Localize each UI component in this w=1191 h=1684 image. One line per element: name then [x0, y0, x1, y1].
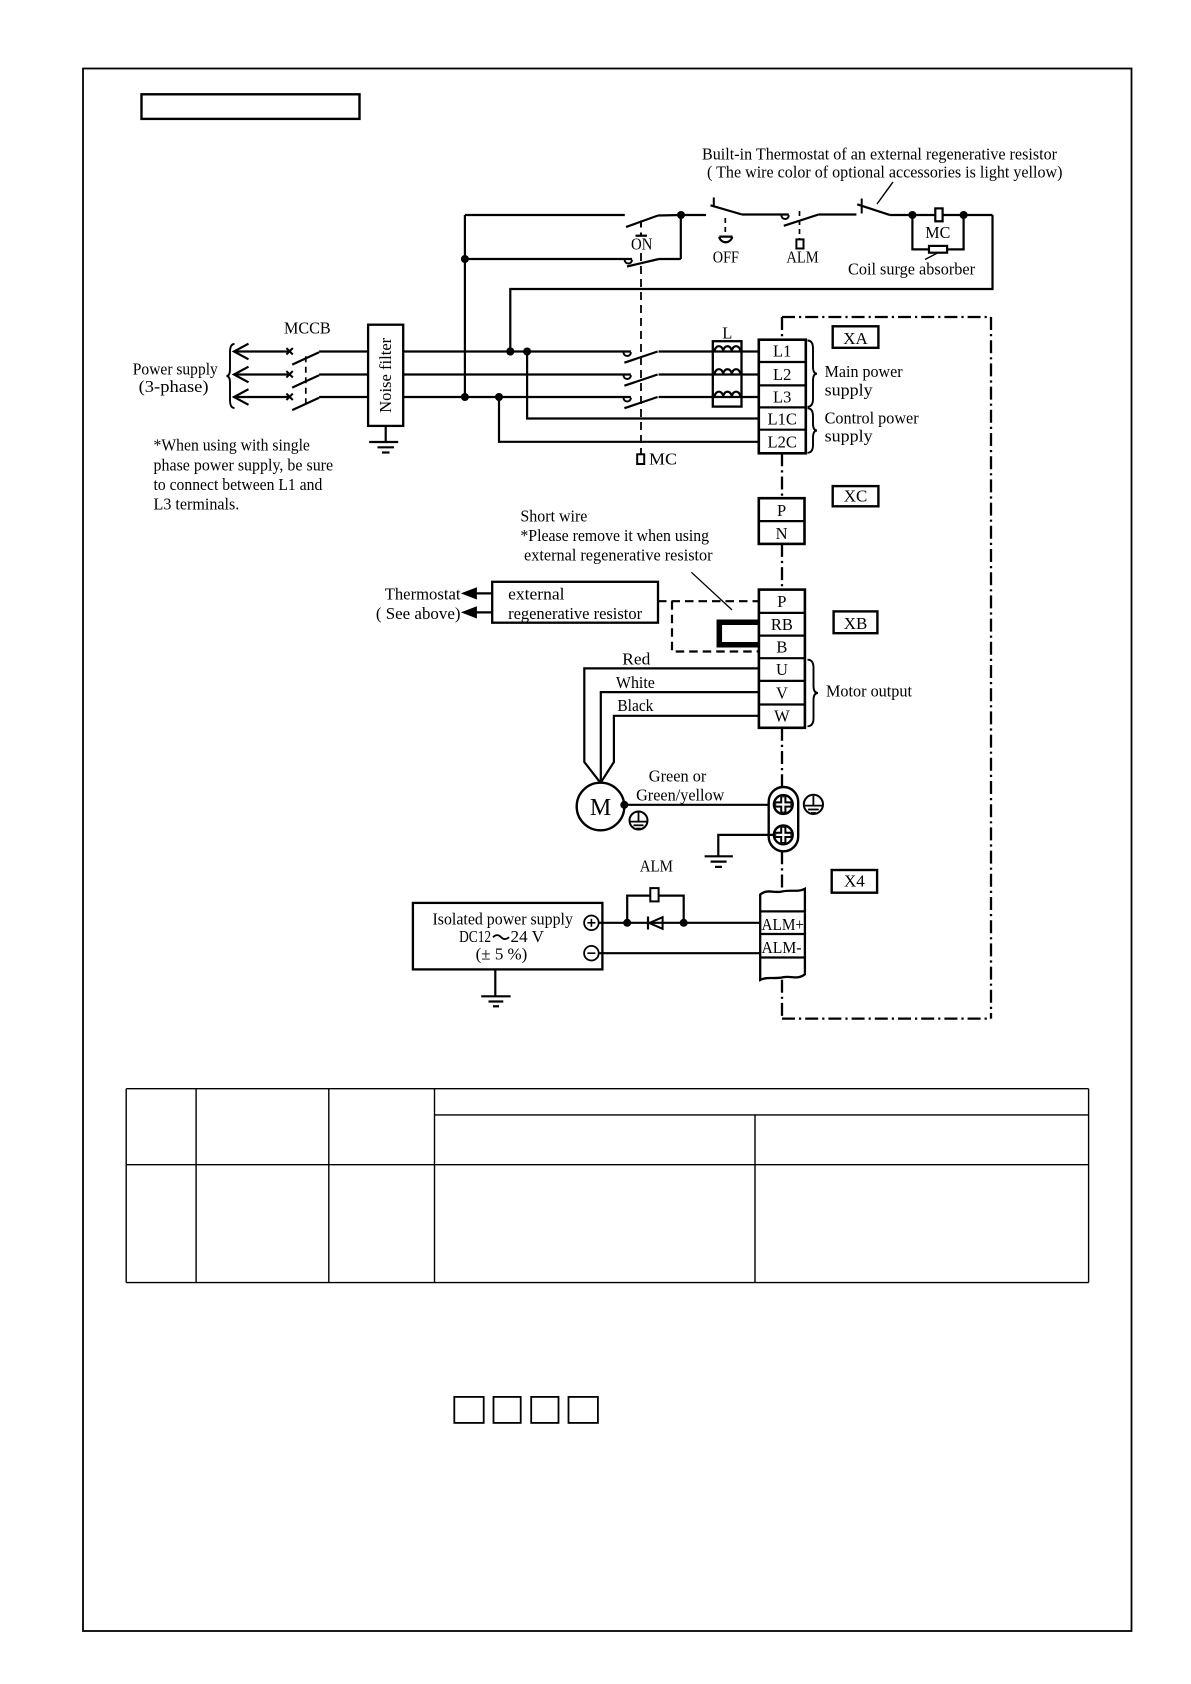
isolated power supply box: [413, 903, 603, 970]
node dot diode right: [680, 919, 688, 927]
reactor winding phase 3: [715, 392, 741, 397]
svg-text:B: B: [776, 638, 787, 657]
ON actuator tick and bar: [640, 221, 642, 228]
protective earth symbol near motor: [630, 812, 648, 830]
svg-text:phase power supply, be sure: phase power supply, be sure: [154, 455, 334, 474]
wire plus to ALM+: [599, 922, 761, 924]
terminal block XC: [759, 498, 805, 544]
node dot L1 tap for return wire: [506, 348, 514, 356]
node dot MC-right: [960, 211, 968, 219]
svg-text:to connect between L1 and: to connect between L1 and: [154, 475, 323, 494]
svg-text:L3 terminals.: L3 terminals.: [154, 495, 240, 514]
svg-text:V: V: [776, 684, 788, 703]
arrow thermostat: [466, 592, 492, 594]
wire V phase (White): [601, 692, 759, 782]
connector label XC box: [833, 486, 879, 506]
svg-text:W: W: [774, 707, 790, 726]
thermostat contact: [861, 199, 863, 214]
svg-text:(± 5 %): (± 5 %): [476, 945, 528, 964]
svg-text:Black: Black: [617, 696, 653, 715]
node dot L1 tap for L1C: [523, 348, 531, 356]
svg-text:MC: MC: [925, 223, 950, 242]
wire right side down: [510, 215, 992, 352]
node dot L3 tap for L2C: [495, 393, 503, 401]
short bar RB-B thick wire: [719, 622, 759, 645]
switch ON auxiliary contact (row B) hook: [625, 260, 632, 264]
svg-text:P: P: [777, 592, 786, 611]
ALM relay branch wire: [627, 896, 684, 923]
svg-text:U: U: [776, 660, 788, 679]
terminal block XA: [759, 340, 806, 454]
OFF actuator dashed link: [724, 218, 726, 234]
OFF button head: [719, 237, 732, 243]
svg-text:L2C: L2C: [768, 432, 797, 451]
svg-text:Coil surge absorber: Coil surge absorber: [848, 260, 975, 279]
wire contactor to reactor phase 2: [659, 373, 759, 375]
dashed wire resistor to B: [672, 601, 759, 651]
wire minus to ALM-: [599, 952, 761, 954]
ALM coil symbol: [796, 239, 803, 248]
svg-text:ON: ON: [631, 235, 652, 254]
contact ALM hook: [742, 213, 789, 215]
plus terminal: [584, 916, 599, 931]
contact ALM blade: [784, 215, 819, 226]
contactor MC contact phase 2: [624, 375, 631, 379]
svg-text:*When using with single: *When using with single: [154, 436, 310, 455]
svg-text:N: N: [776, 524, 788, 543]
MCCB breaker cross phase 2: [286, 371, 292, 377]
reactor winding phase 2: [715, 369, 741, 374]
svg-text:L1C: L1C: [768, 409, 797, 428]
svg-text:regenerative resistor: regenerative resistor: [508, 604, 642, 623]
title placeholder box: [142, 94, 360, 119]
svg-text:MCCB: MCCB: [284, 319, 331, 338]
wire through MC coil: [912, 214, 992, 216]
wire row-A left segment: [465, 214, 625, 216]
svg-text:Green/yellow: Green/yellow: [636, 786, 725, 805]
svg-text:ALM: ALM: [640, 857, 673, 876]
svg-text:Power supply: Power supply: [133, 360, 218, 379]
svg-text:Thermostat: Thermostat: [385, 585, 461, 604]
svg-text:OFF: OFF: [713, 248, 739, 267]
svg-text:L3: L3: [773, 387, 791, 406]
node dot return-to-L1: [506, 348, 514, 356]
wire contactor to reactor phase 1: [659, 350, 759, 352]
brace main power supply: [808, 341, 818, 407]
svg-text:24 V: 24 V: [511, 927, 545, 946]
svg-text:X4: X4: [844, 872, 865, 891]
svg-text:Built-in Thermostat of an ext: Built-in Thermostat of an external regen…: [702, 145, 1057, 164]
minus terminal: [584, 946, 599, 961]
coil surge absorber branch: [912, 215, 963, 249]
svg-text:*Please remove it when using: *Please remove it when using: [520, 526, 709, 545]
wire filter to contactor phase 2: [403, 373, 631, 375]
wire to noise filter phase 1: [319, 350, 368, 352]
svg-text:( The wire color of optional a: ( The wire color of optional accessories…: [707, 163, 1063, 182]
noise filter ground: [385, 426, 387, 442]
switch ON auxiliary contact blade: [627, 259, 659, 267]
node junction dot after ON: [677, 211, 685, 219]
ALM relay coil: [650, 888, 658, 901]
connector label X4 box: [832, 870, 877, 893]
svg-text:Isolated power supply: Isolated power supply: [433, 910, 574, 929]
connector label XB box: [834, 611, 878, 633]
svg-text:White: White: [616, 673, 655, 692]
square box 2: [494, 1397, 521, 1423]
external regenerative resistor box: [492, 582, 658, 623]
svg-text:L2: L2: [773, 365, 791, 384]
wire filter to contactor phase 1: [403, 350, 631, 352]
node dot MC-left: [908, 211, 916, 219]
ALM actuator dashed link: [799, 211, 801, 239]
wire filter to contactor phase 3: [403, 396, 631, 398]
MC coil symbol (top branch): [935, 208, 942, 221]
diode: [647, 917, 649, 930]
svg-text:RB: RB: [771, 615, 793, 634]
power input arrow phase 2: [234, 367, 249, 383]
leader to surge absorber: [925, 253, 937, 259]
terminal block XB: [759, 590, 805, 728]
switch ON contact (row A): [626, 216, 658, 228]
MCCB contact blade phase 2: [292, 375, 319, 387]
svg-text:Noise filter: Noise filter: [376, 337, 395, 413]
square box 1: [454, 1397, 483, 1423]
arrow see-above: [466, 611, 492, 613]
wire contactor to reactor phase 3: [659, 396, 759, 398]
earth screw top: [774, 795, 793, 814]
table outer and lines: [126, 1088, 1088, 1090]
wire bottom screw to ground: [718, 835, 774, 856]
protective earth symbol right of terminal: [804, 795, 823, 814]
svg-text:ALM-: ALM-: [762, 938, 802, 957]
leader line short wire: [691, 572, 732, 610]
wire U phase (Red): [584, 668, 759, 782]
power input arrow phase 3: [234, 389, 249, 405]
node dot motor ground tap: [620, 801, 628, 809]
wire W phase (Black): [601, 716, 759, 782]
MCCB breaker cross phase 3: [286, 394, 292, 400]
pushbutton OFF contact: [713, 198, 715, 207]
connector label XA box: [833, 326, 879, 348]
MCCB contact blade phase 3: [292, 398, 319, 410]
MCCB dashed mechanical link: [305, 356, 307, 403]
svg-text:ALM+: ALM+: [762, 915, 805, 934]
svg-text:Main power: Main power: [825, 362, 903, 381]
svg-text:ALM: ALM: [786, 248, 818, 267]
ground symbol below earth terminal: [705, 855, 733, 857]
power input arrow phase 1: [234, 344, 249, 360]
ground wire motor to earth terminal: [624, 804, 774, 806]
amplifier outline dash-dot right: [990, 317, 992, 1019]
svg-text:Short wire: Short wire: [520, 507, 587, 526]
svg-text:P: P: [777, 501, 786, 520]
svg-text:XB: XB: [844, 614, 868, 633]
svg-text:XC: XC: [844, 487, 868, 506]
amplifier outline dash-dot bottom: [782, 1017, 991, 1019]
motor M circle: [577, 783, 625, 831]
MC coil symbol (bottom): [637, 454, 644, 464]
contactor MC contact phase 3: [624, 398, 631, 402]
wire dot to OFF: [681, 214, 706, 216]
wire L1 to L1C terminal: [527, 352, 759, 419]
svg-text:( See above): ( See above): [376, 604, 461, 623]
svg-text:Green or: Green or: [649, 767, 707, 786]
power supply ground: [494, 969, 496, 995]
svg-text:Control power: Control power: [825, 409, 919, 428]
svg-text:XA: XA: [843, 329, 868, 348]
reactor winding phase 1: [715, 346, 741, 351]
brace for 3-phase input: [227, 344, 235, 408]
wire row-B: [465, 258, 632, 260]
connector X4 torn block: [760, 889, 805, 980]
svg-text:external regenerative resistor: external regenerative resistor: [524, 546, 713, 565]
svg-text:(3-phase): (3-phase): [139, 377, 209, 396]
svg-text:Red: Red: [622, 650, 651, 669]
svg-text:L1: L1: [773, 342, 791, 361]
square box 3: [531, 1397, 558, 1423]
left control vertical wire: [464, 215, 466, 397]
svg-text:DC12: DC12: [459, 927, 491, 946]
wire to noise filter phase 3: [319, 396, 368, 398]
svg-text:MC: MC: [649, 450, 677, 469]
amplifier outline dash-dot left segments: [781, 317, 783, 340]
reactor L box: [713, 341, 742, 406]
svg-text:external: external: [508, 585, 565, 604]
wire to noise filter phase 2: [319, 373, 368, 375]
wire ON junction down to row B: [680, 215, 682, 259]
brace control power supply: [808, 408, 818, 453]
svg-text:L: L: [722, 324, 732, 343]
node dot diode left: [623, 919, 631, 927]
node dot L3 tap from control vertical: [461, 393, 469, 401]
MCCB breaker cross phase 1: [286, 348, 292, 354]
square box 4: [569, 1397, 598, 1423]
earth terminal stadium: [769, 787, 799, 851]
leader line from thermostat note to contact: [877, 182, 893, 204]
contactor MC contact phase 1: [624, 352, 631, 356]
node junction dot row B at left vertical: [461, 255, 469, 263]
noise filter box: [368, 325, 403, 426]
svg-text:Motor output: Motor output: [826, 682, 912, 701]
surge absorber element: [929, 246, 947, 253]
MC operating dashed link vertical: [640, 253, 642, 454]
wire L3 to L2C terminal: [499, 397, 759, 442]
svg-text:supply: supply: [825, 427, 874, 446]
amplifier outline dash-dot top: [782, 316, 991, 318]
svg-text:supply: supply: [825, 381, 874, 400]
MCCB contact blade phase 1: [292, 352, 319, 364]
earth screw bottom: [774, 826, 793, 845]
brace motor output: [808, 660, 819, 727]
svg-text:M: M: [590, 795, 611, 821]
dashed wire resistor to P: [658, 600, 759, 602]
